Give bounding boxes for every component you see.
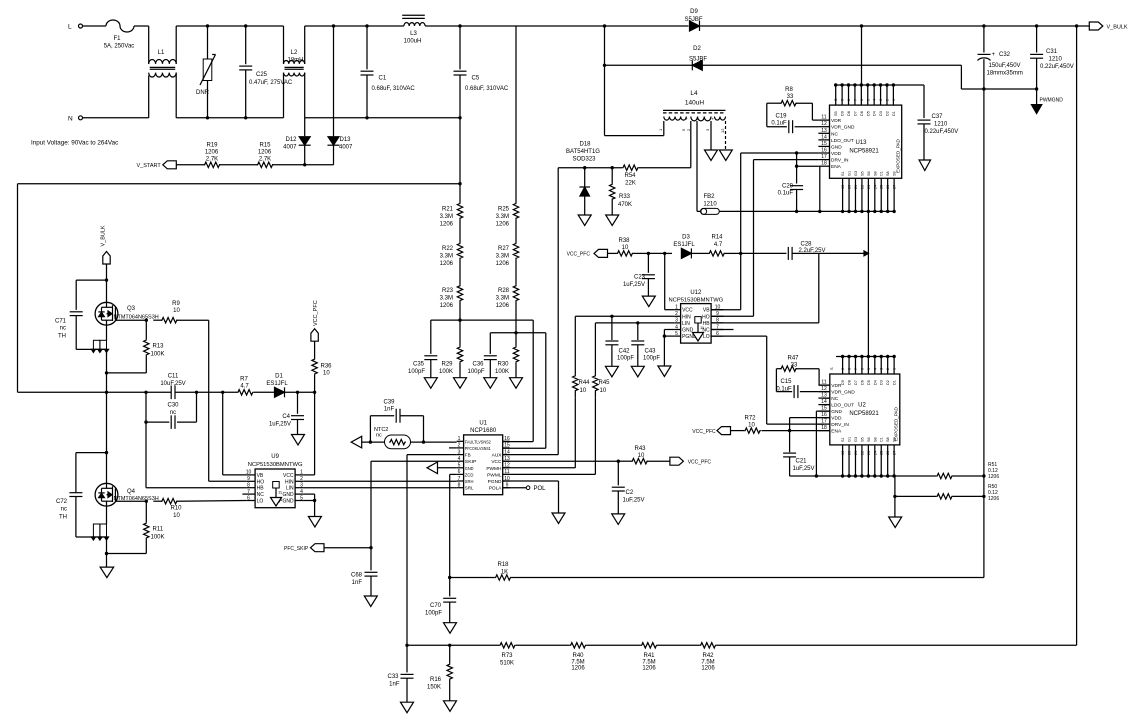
svg-text:14: 14 — [821, 134, 827, 140]
svg-text:C68: C68 — [351, 573, 363, 579]
wire (C71 return to gate pad) — [76, 340, 108, 352]
svg-text:G1: G1 — [848, 171, 852, 176]
ground — [308, 517, 321, 528]
svg-text:23: 23 — [867, 451, 871, 455]
svg-text:SOD323: SOD323 — [572, 157, 596, 163]
svg-text:19: 19 — [841, 451, 845, 455]
transistor Q4 (NTMT064N65S3H) — [95, 453, 159, 524]
capacitor C20 — [778, 153, 803, 211]
inductor L2 (common-mode choke) — [284, 50, 305, 76]
wire (top bus to V_BULK) — [860, 24, 1077, 27]
svg-text:D3: D3 — [879, 111, 883, 116]
wire (L4 pin3) — [710, 121, 712, 150]
svg-text:VCC: VCC — [283, 473, 294, 479]
svg-text:2: 2 — [675, 311, 678, 317]
svg-text:R40: R40 — [572, 653, 584, 659]
svg-text:1uF,25V: 1uF,25V — [623, 282, 645, 288]
resistor R42 — [700, 643, 1077, 672]
svg-text:10: 10 — [323, 371, 330, 377]
svg-text:2: 2 — [885, 99, 889, 101]
svg-text:DNR: DNR — [196, 90, 210, 96]
capacitor C11 (bootstrap) — [160, 374, 185, 400]
svg-text:C70: C70 — [430, 603, 442, 609]
resistor R11 — [144, 501, 165, 553]
terminal V_START — [137, 161, 206, 169]
resistor R43 — [618, 446, 670, 464]
svg-text:33: 33 — [787, 94, 794, 100]
ground — [612, 514, 625, 525]
svg-text:S8: S8 — [873, 437, 877, 442]
resistor R41 — [641, 643, 700, 672]
svg-text:C19: C19 — [775, 114, 787, 120]
svg-text:C25: C25 — [256, 72, 268, 78]
svg-text:ENA: ENA — [831, 164, 842, 170]
svg-text:27: 27 — [893, 451, 897, 455]
op-amp U1 (PFC controller NCP1680) — [457, 421, 510, 495]
svg-text:PGND: PGND — [488, 479, 502, 485]
wire (PGND) — [503, 481, 559, 513]
svg-text:S1: S1 — [841, 171, 845, 176]
ground — [364, 596, 377, 607]
resistor R28 — [496, 285, 519, 309]
svg-text:1uF,25V: 1uF,25V — [623, 498, 645, 504]
svg-text:U9: U9 — [271, 454, 279, 460]
svg-text:NCP58921: NCP58921 — [849, 149, 879, 155]
svg-text:4.7: 4.7 — [714, 242, 723, 248]
svg-text:R10: R10 — [170, 506, 182, 512]
svg-text:18: 18 — [821, 161, 827, 167]
wire — [515, 219, 517, 242]
svg-text:R33: R33 — [619, 194, 631, 200]
capacitor C25 — [239, 24, 293, 119]
capacitor C72 — [56, 453, 107, 537]
svg-text:10: 10 — [600, 388, 607, 394]
ground — [444, 701, 457, 712]
svg-text:C1: C1 — [880, 171, 884, 176]
wire (VB to U9 pin10) — [223, 392, 247, 475]
svg-text:S5: S5 — [834, 111, 838, 116]
wire (PWMH net) — [503, 398, 576, 468]
svg-text:D2: D2 — [693, 46, 701, 52]
wire — [459, 219, 461, 242]
ground — [658, 366, 671, 377]
svg-text:C30: C30 — [167, 403, 179, 409]
svg-text:S9: S9 — [893, 437, 897, 442]
svg-text:24: 24 — [873, 451, 877, 455]
svg-text:10: 10 — [173, 513, 180, 519]
svg-text:10: 10 — [638, 453, 645, 459]
capacitor C2 — [612, 461, 645, 514]
svg-text:HB: HB — [257, 486, 265, 492]
svg-text:D2: D2 — [886, 380, 890, 385]
diode D1 — [266, 374, 288, 398]
wire (SRL line U9-U1) — [303, 487, 456, 489]
svg-text:0.68uF, 310VAC: 0.68uF, 310VAC — [465, 86, 509, 92]
svg-text:NC: NC — [831, 396, 838, 402]
svg-text:3.3M: 3.3M — [440, 296, 453, 302]
svg-text:7: 7 — [854, 368, 858, 370]
wire (U12 NC stub) — [711, 329, 733, 331]
resistor R30 — [495, 333, 519, 378]
capacitor C30 (nc) — [144, 392, 196, 429]
wire (SW rail to U2 drain) — [867, 211, 869, 356]
svg-text:LIN: LIN — [682, 321, 690, 327]
svg-text:D12: D12 — [285, 137, 297, 143]
svg-text:4007: 4007 — [339, 145, 353, 151]
svg-text:C33: C33 — [387, 674, 399, 680]
resistor RS1 (R51) — [895, 462, 999, 480]
svg-text:20: 20 — [848, 451, 852, 455]
svg-text:1206: 1206 — [440, 261, 454, 267]
wire — [149, 26, 284, 64]
resistor R29 — [439, 320, 463, 378]
wire (bottom divider line) — [405, 644, 499, 647]
svg-text:C43: C43 — [645, 349, 657, 355]
svg-text:VDR_GND: VDR_GND — [831, 390, 855, 396]
resistor R73 — [499, 643, 570, 667]
capacitor C68 — [351, 548, 378, 596]
svg-text:100pF: 100pF — [617, 356, 634, 362]
node L (line input terminal) — [68, 24, 83, 31]
svg-text:C2: C2 — [626, 490, 634, 496]
ground (Q4 source) — [100, 567, 114, 578]
svg-text:140uH: 140uH — [685, 100, 704, 107]
svg-text:NCP1680: NCP1680 — [470, 428, 497, 434]
svg-text:2: 2 — [886, 368, 890, 370]
svg-text:R28: R28 — [498, 288, 510, 294]
svg-text:8: 8 — [458, 483, 461, 489]
svg-text:R22: R22 — [442, 246, 454, 252]
svg-text:S5: S5 — [860, 437, 864, 442]
inductor L3 — [402, 15, 425, 44]
svg-text:18mmx35mm: 18mmx35mm — [987, 71, 1023, 77]
svg-text:D4: D4 — [873, 380, 877, 385]
ground — [606, 215, 619, 226]
svg-text:10: 10 — [246, 470, 252, 476]
resistor R25 — [496, 26, 519, 228]
svg-text:10: 10 — [580, 388, 587, 394]
svg-text:100uH: 100uH — [404, 39, 422, 45]
svg-text:0.1uF: 0.1uF — [778, 191, 794, 197]
svg-text:TH: TH — [58, 334, 66, 340]
svg-text:D3: D3 — [880, 380, 884, 385]
svg-text:VB: VB — [703, 308, 710, 314]
svg-text:21: 21 — [854, 185, 858, 189]
svg-text:D8: D8 — [847, 111, 851, 116]
wire (SKIP net) — [371, 461, 457, 548]
svg-text:25: 25 — [880, 451, 884, 455]
svg-text:DRV_IN: DRV_IN — [831, 158, 849, 164]
svg-text:3: 3 — [879, 99, 883, 101]
wire — [648, 252, 672, 255]
svg-text:1206: 1206 — [642, 666, 656, 672]
wire (VCC to U9 pin1) — [303, 392, 314, 475]
svg-text:1K: 1K — [501, 570, 508, 576]
wire (U2 LDO stub) — [823, 404, 830, 406]
svg-text:+: + — [696, 116, 699, 121]
svg-text:D13: D13 — [340, 137, 352, 143]
svg-text:D2: D2 — [885, 111, 889, 116]
svg-text:D9: D9 — [841, 111, 845, 116]
svg-text:10: 10 — [748, 423, 755, 429]
svg-text:L3: L3 — [410, 31, 417, 37]
diode D13 — [328, 24, 354, 165]
svg-text:FB: FB — [465, 453, 471, 458]
terminal VCC_PFC (to R36) — [311, 300, 319, 358]
svg-text:C5: C5 — [472, 76, 480, 82]
capacitor C33 — [387, 645, 413, 702]
transistor Q3 (NTMT064N65S3H) — [95, 280, 159, 340]
svg-text:PWMGND: PWMGND — [1040, 98, 1064, 104]
svg-text:6: 6 — [247, 495, 250, 501]
capacitor C43 — [631, 323, 660, 366]
svg-text:C39: C39 — [383, 400, 395, 406]
svg-text:4: 4 — [873, 99, 877, 101]
svg-text:VDD: VDD — [831, 416, 842, 422]
capacitor C23 — [623, 252, 655, 296]
svg-text:R15: R15 — [259, 143, 271, 149]
wire (C72 return to gate pad) — [76, 524, 109, 540]
wire (divider2 rail) — [490, 333, 546, 448]
svg-text:Input Voltage: 90Vac to 264Vac: Input Voltage: 90Vac to 264Vac — [31, 139, 118, 146]
wire (U12 HIN) — [575, 315, 674, 375]
svg-text:C32: C32 — [999, 52, 1011, 58]
ground — [719, 150, 732, 161]
svg-text:150uF,450V: 150uF,450V — [989, 63, 1021, 69]
wire — [515, 259, 517, 285]
wire (AUX top node) — [558, 166, 691, 169]
svg-text:ES1JFL: ES1JFL — [673, 242, 695, 248]
svg-text:1210: 1210 — [703, 202, 717, 208]
wire (DRV_IN line U13) — [754, 160, 819, 317]
capacitor C19 — [767, 103, 819, 133]
svg-text:23: 23 — [867, 185, 871, 189]
ground — [705, 150, 718, 161]
resistor R45 — [593, 375, 610, 398]
terminal VCC_PFC (R38 feed) — [567, 249, 608, 257]
svg-text:DRV_IN: DRV_IN — [831, 422, 849, 428]
svg-text:C42: C42 — [619, 349, 631, 355]
svg-text:4.7: 4.7 — [240, 384, 249, 390]
resistor R54 — [622, 165, 639, 187]
svg-text:5: 5 — [675, 331, 678, 337]
node POL — [503, 486, 546, 492]
svg-text:C4: C4 — [282, 414, 290, 420]
inductor L1 (common-mode choke) — [149, 50, 177, 77]
svg-text:8: 8 — [847, 99, 851, 101]
svg-text:D3: D3 — [682, 235, 690, 241]
wire (U13 drain rail) — [834, 26, 924, 87]
svg-text:12: 12 — [720, 128, 725, 133]
svg-text:1nF: 1nF — [384, 407, 395, 413]
resistor R36 — [312, 358, 332, 392]
svg-text:+: + — [992, 52, 996, 58]
op-amp U12 (driver NCP51530BMNTWG) — [668, 290, 723, 343]
capacitor C4 — [269, 392, 304, 434]
svg-text:100K: 100K — [439, 369, 453, 375]
svg-text:470K: 470K — [618, 202, 632, 208]
wire (U12 LO to U2 DRV_IN) — [711, 336, 824, 424]
svg-text:C31: C31 — [1046, 49, 1058, 55]
wire — [284, 26, 404, 64]
capacitor C70 — [425, 578, 456, 623]
svg-text:U1: U1 — [479, 421, 487, 427]
fuse F1 — [104, 20, 135, 50]
ground — [605, 366, 618, 377]
svg-text:1206: 1206 — [571, 666, 585, 672]
svg-text:5A, 250Vac: 5A, 250Vac — [104, 44, 135, 50]
svg-text:100pF: 100pF — [467, 369, 484, 375]
ground PWMGND (power arrow) — [1031, 87, 1063, 113]
svg-text:L1: L1 — [158, 50, 165, 56]
svg-text:0.1uF: 0.1uF — [771, 120, 787, 126]
svg-text:10: 10 — [173, 308, 180, 314]
svg-text:D7: D7 — [853, 111, 857, 116]
resistor R21 — [440, 184, 463, 228]
svg-text:R13: R13 — [153, 344, 165, 350]
resistor R14 — [702, 235, 741, 257]
svg-text:BAT54HT1G: BAT54HT1G — [566, 149, 600, 155]
svg-text:2.7K: 2.7K — [206, 157, 218, 163]
svg-text:VCC_PFC: VCC_PFC — [313, 300, 319, 326]
wire (U13 source rail) — [719, 210, 896, 213]
svg-text:G1: G1 — [848, 437, 852, 442]
svg-text:HIN: HIN — [682, 314, 691, 320]
resistor R10 — [145, 499, 247, 520]
capacitor C35 — [408, 320, 437, 378]
capacitor C42 — [605, 316, 634, 366]
resistor R40 — [570, 643, 641, 672]
svg-text:22: 22 — [860, 185, 864, 189]
svg-text:7: 7 — [247, 489, 250, 495]
resistor R27 — [496, 243, 519, 268]
svg-text:+: + — [711, 116, 714, 121]
wire — [134, 26, 149, 61]
diode D3 — [673, 235, 702, 259]
svg-text:U2: U2 — [858, 403, 866, 409]
svg-text:16: 16 — [821, 148, 827, 154]
svg-text:2.7K: 2.7K — [259, 157, 271, 163]
wire (pin16 to divider1) — [503, 441, 534, 443]
svg-text:U13: U13 — [855, 140, 867, 146]
svg-text:C21: C21 — [796, 459, 808, 465]
resistor R19 — [204, 143, 221, 168]
svg-text:VDD: VDD — [831, 151, 842, 157]
svg-text:D7: D7 — [854, 380, 858, 385]
svg-text:22: 22 — [860, 451, 864, 455]
svg-text:1206: 1206 — [496, 222, 510, 228]
svg-text:1206: 1206 — [258, 150, 272, 156]
svg-text:5: 5 — [866, 99, 870, 101]
svg-text:9: 9 — [841, 368, 845, 370]
wire (U12 VCC) — [665, 253, 675, 309]
wire (U2 GND) — [815, 411, 830, 478]
svg-text:150K: 150K — [427, 685, 441, 691]
svg-text:8: 8 — [247, 483, 250, 489]
capacitor C71 — [55, 280, 107, 349]
svg-text:5: 5 — [867, 368, 871, 370]
svg-text:R27: R27 — [498, 246, 510, 252]
resistor R33 — [610, 168, 633, 215]
wire — [460, 25, 516, 27]
svg-text:R30: R30 — [497, 362, 509, 368]
resistor R13 — [144, 320, 165, 373]
svg-text:L: L — [68, 24, 72, 31]
wire — [272, 163, 334, 166]
svg-text:4007: 4007 — [283, 145, 297, 151]
ground — [444, 623, 457, 634]
svg-text:1206: 1206 — [440, 222, 454, 228]
text input voltage note — [31, 139, 118, 146]
svg-text:HO: HO — [702, 314, 710, 320]
svg-text:LIN: LIN — [286, 486, 294, 492]
svg-text:D1: D1 — [892, 111, 896, 116]
resistor R9 — [145, 301, 209, 323]
svg-text:S6: S6 — [867, 437, 871, 442]
svg-text:0.47uF, 275VAC: 0.47uF, 275VAC — [249, 80, 293, 86]
wire (ZCD net) — [450, 474, 457, 577]
svg-text:7: 7 — [853, 99, 857, 101]
svg-text:D1: D1 — [275, 374, 283, 380]
svg-text:R45: R45 — [599, 380, 611, 386]
resistor R7 — [237, 377, 254, 395]
svg-text:1206: 1206 — [496, 261, 510, 267]
wire (U12 HB) — [711, 322, 819, 324]
wire (V_BULK sense drop) — [1076, 26, 1078, 645]
resistor R44 — [573, 375, 591, 398]
svg-text:S6: S6 — [867, 171, 871, 176]
svg-text:NTMT064N65S3H: NTMT064N65S3H — [114, 496, 159, 502]
svg-text:8: 8 — [848, 368, 852, 370]
svg-text:nc: nc — [170, 410, 176, 416]
ground — [578, 215, 591, 226]
terminal VCC_PFC (U1 VCC) — [670, 457, 712, 465]
resistor R72 — [737, 416, 761, 434]
wire (SRH line U9-U1) — [303, 480, 456, 482]
svg-text:D1: D1 — [893, 380, 897, 385]
wire (R18 node) — [448, 576, 451, 579]
svg-text:C15: C15 — [780, 379, 792, 385]
svg-text:R54: R54 — [624, 173, 636, 179]
svg-text:6: 6 — [860, 368, 864, 370]
svg-text:5: 5 — [300, 495, 303, 501]
wire — [961, 65, 1036, 89]
svg-text:Q3: Q3 — [127, 306, 136, 312]
svg-text:C36: C36 — [472, 362, 484, 368]
svg-text:6: 6 — [458, 469, 461, 475]
svg-text:S9: S9 — [893, 171, 897, 176]
svg-text:V_BULK: V_BULK — [101, 225, 107, 246]
wire — [219, 164, 258, 166]
svg-text:17: 17 — [821, 419, 827, 425]
svg-text:F1: F1 — [113, 36, 121, 42]
capacitor C36 — [467, 333, 496, 378]
wire — [425, 25, 460, 27]
wire — [792, 251, 868, 323]
svg-text:3.3M: 3.3M — [496, 214, 509, 220]
svg-text:VCC_PFC: VCC_PFC — [692, 429, 716, 435]
svg-text:15: 15 — [821, 141, 827, 147]
svg-text:9: 9 — [841, 99, 845, 101]
wire — [105, 392, 108, 454]
svg-text:D6: D6 — [860, 111, 864, 116]
wire (U2 VDD) — [788, 418, 830, 433]
svg-text:NC: NC — [257, 492, 265, 498]
node GND arrow (NTC return) — [351, 436, 384, 448]
svg-text:1206: 1206 — [205, 150, 219, 156]
ground (U9 pins 4,5) — [303, 494, 316, 516]
svg-text:V_START: V_START — [137, 163, 162, 169]
